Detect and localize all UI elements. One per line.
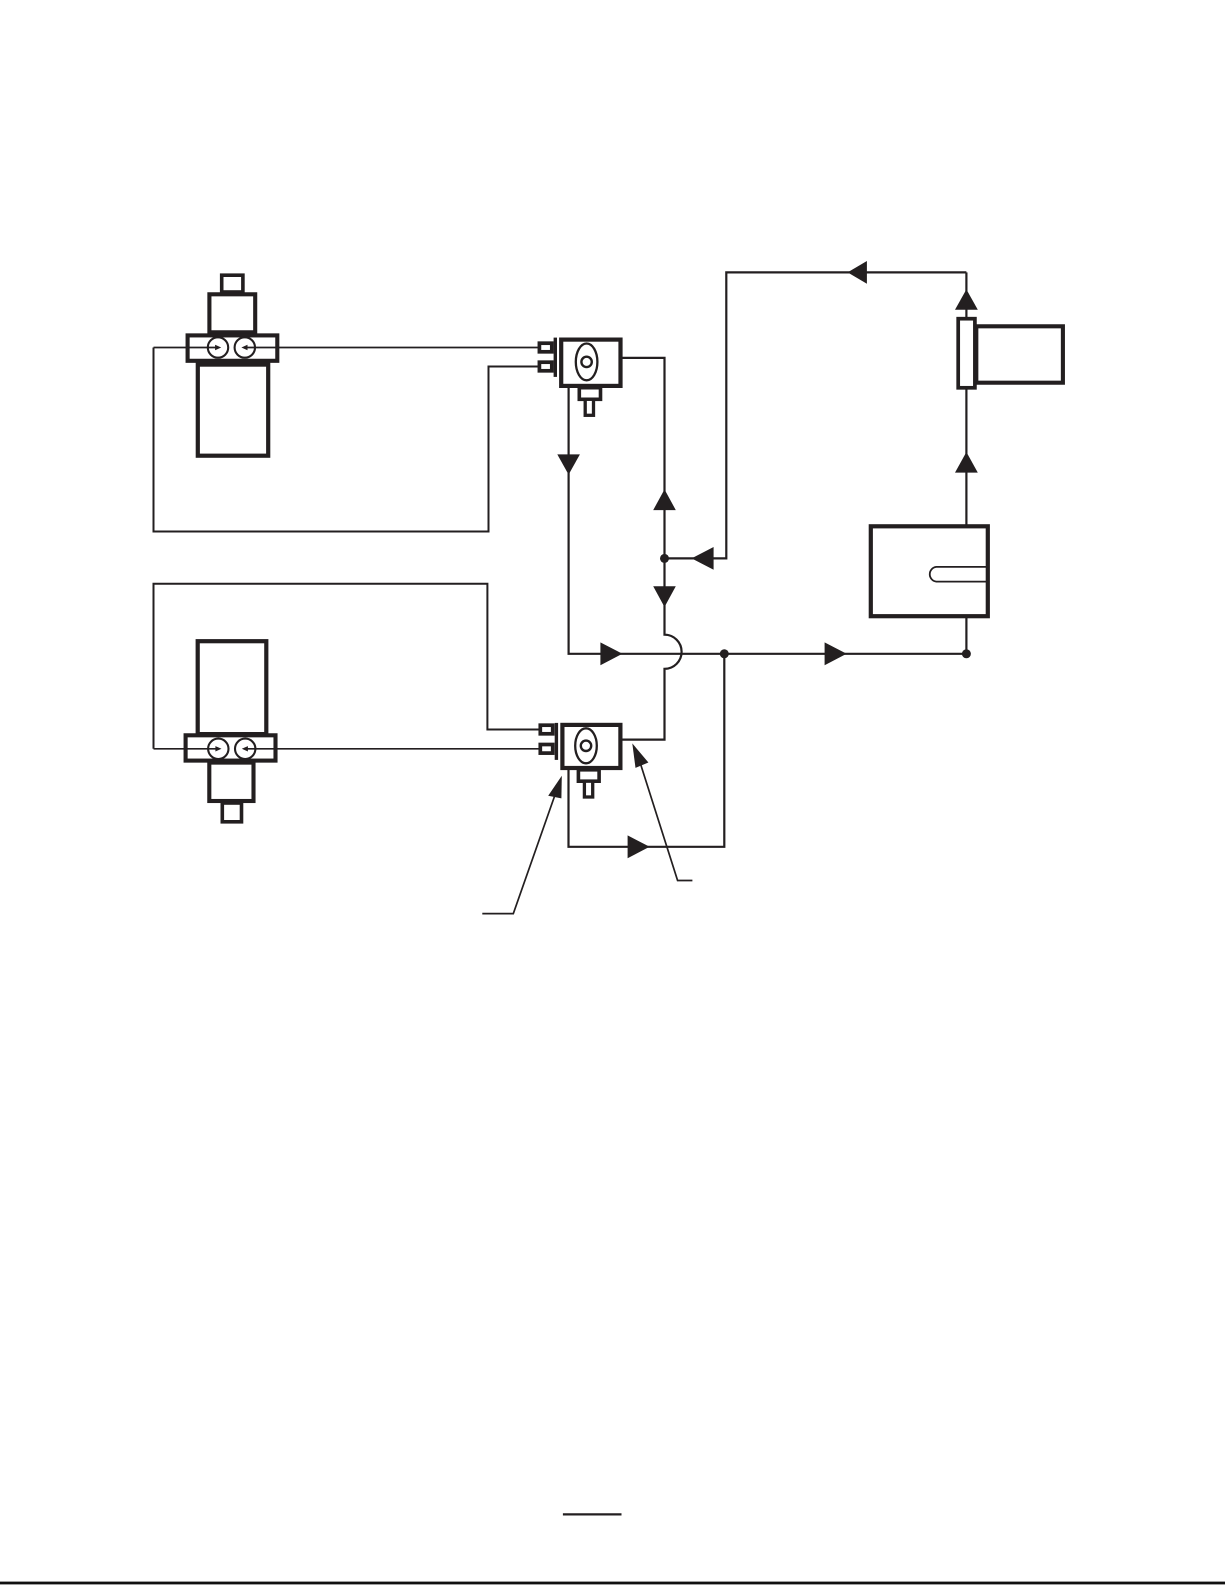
- cylinder C1 (upper lift cylinder) top cap: [222, 275, 243, 292]
- flow arrow right on main supply line before bridge: [600, 642, 622, 665]
- flow arrow up on riser x=664.5 below valve V1: [653, 489, 676, 510]
- flow arrow right on lower horizontal run y=846.8: [628, 835, 650, 858]
- cylinder C1 left orifice circle: [208, 337, 228, 357]
- flow arrow up into filter flange (x=966.4): [955, 289, 978, 309]
- wire: thin rod line from C1 right orifice to valve V1 upper port: [247, 347, 538, 349]
- junction node at riser x=664.5 / y=558.4: [660, 554, 669, 563]
- wire: thin rod line into C1 left orifice: [154, 347, 216, 349]
- leader line (callout) pointing to valve V2 right side, lower-right: [641, 764, 693, 881]
- reservoir box with suction slot: [871, 526, 988, 616]
- valve V1 lower stem wide block: [579, 388, 600, 400]
- wire: valve V2 bottom drop, lower horizontal run, riser up to supply node: [569, 654, 725, 847]
- cylinder C2 orifice bar: [186, 735, 276, 760]
- motor housing box (top right): [976, 326, 1063, 382]
- wire: cylinder-1 upper loop (left vertical, bottom horizontal, riser to valve V1 lower port): [154, 348, 538, 532]
- cylinder C1 neck block: [209, 294, 255, 332]
- valve V2 spool ellipse: [575, 728, 597, 763]
- wire: junction node to return riser x=726.3 up and across top to pump/motor column: [665, 272, 967, 558]
- wire: valve V1 bottom drop down then main supply line right to node under reservoir: [569, 388, 967, 654]
- wire: thin rod line into C2 left orifice: [154, 748, 216, 750]
- valve V2 upper left port square: [540, 725, 552, 734]
- leader arrowhead pointing to valve V2 right side: [632, 743, 648, 768]
- valve V1 lower stem tip: [585, 399, 593, 415]
- cylinder C2 neck block: [209, 763, 253, 801]
- cylinder C1 right orifice flow arrow (tip left): [241, 345, 247, 350]
- cylinder C1 orifice bar: [188, 335, 278, 360]
- filter flange (narrow vertical rectangle on motor): [958, 319, 975, 388]
- cylinder C2 right orifice circle: [235, 739, 255, 759]
- valve V1 (upper cushion valve) body: [561, 340, 620, 386]
- flow arrow down on riser x=664.5 above bridge: [653, 586, 676, 607]
- wire: filter flange down to reservoir top: [965, 389, 967, 524]
- valve V2 lower stem tip: [584, 781, 592, 797]
- reservoir suction slot (rounded-left channel): [930, 567, 988, 582]
- valve V1 spool ellipse: [576, 344, 598, 381]
- valve V1 upper left port square: [539, 343, 551, 352]
- leader arrowhead pointing to valve V2 stem: [548, 776, 562, 799]
- valve V1 lower left port square: [539, 362, 551, 371]
- cylinder C2 right orifice flow arrow (tip left): [242, 746, 248, 751]
- cylinder C1 right orifice circle: [235, 337, 255, 357]
- cylinder C1 left orifice flow arrow (tip right): [215, 345, 221, 350]
- valve V1 spool inner circle: [581, 357, 591, 367]
- wire: valve V1 right port to riser x=664.5 down over bridge to valve V2 right port: [622, 358, 681, 740]
- wire: thin rod line from C2 right orifice to valve V2 lower port: [247, 748, 539, 750]
- junction node on supply line at x=724.3: [720, 649, 729, 658]
- cylinder C2 (lower lift cylinder, inverted) body shell: [198, 641, 267, 734]
- flow arrow right on main supply line after junction dot: [825, 642, 847, 665]
- flow arrow left on top return line y=272.4: [848, 261, 867, 284]
- cylinder C2 left orifice flow arrow (tip right): [215, 746, 221, 751]
- valve V2 port block wall (double line): [555, 723, 558, 760]
- valve V2 lower left port square: [540, 745, 552, 754]
- footer short rule (caption underline): [563, 1513, 622, 1515]
- wire: top of motor column down to filter flange: [965, 272, 967, 317]
- wire: reservoir bottom to supply node: [965, 618, 967, 654]
- valve V2 lower stem wide block: [578, 770, 599, 781]
- cylinder C1 body shell: [198, 365, 268, 456]
- cylinder C2 bottom cap: [222, 803, 241, 822]
- flow arrow down on valve V1 bottom drop (x=568.6): [557, 454, 580, 474]
- leader line (callout) pointing to valve V2 stem, lower-left: [482, 794, 555, 914]
- valve V1 port block wall (double line): [554, 338, 557, 377]
- cylinder C2 left orifice circle: [208, 739, 228, 759]
- valve V2 spool inner circle: [581, 741, 591, 751]
- wire: cylinder-2 loop (left vertical, top horizontal, drop to valve V2 upper port): [154, 584, 539, 749]
- flow arrow up between reservoir and filter flange: [955, 452, 978, 473]
- valve V2 (lower cushion valve) body: [562, 725, 620, 768]
- flow arrow left on link from return riser into junction node: [692, 547, 714, 570]
- page bottom edge line: [0, 1582, 1225, 1585]
- junction node on supply line below reservoir: [962, 649, 971, 658]
